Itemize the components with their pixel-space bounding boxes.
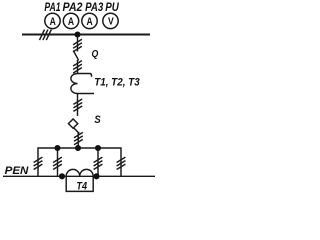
- svg-text:Q: Q: [92, 49, 99, 60]
- svg-text:PU: PU: [105, 1, 119, 14]
- svg-text:A: A: [68, 16, 74, 28]
- svg-text:PA2: PA2: [63, 1, 83, 14]
- svg-text:PA1: PA1: [44, 1, 60, 14]
- svg-text:A: A: [50, 16, 56, 28]
- svg-text:A: A: [87, 16, 93, 28]
- svg-text:V: V: [108, 16, 114, 27]
- svg-text:S: S: [94, 114, 101, 126]
- svg-text:T1, T2, T3: T1, T2, T3: [94, 76, 140, 88]
- svg-text:PA3: PA3: [85, 1, 104, 14]
- svg-text:PEN: PEN: [5, 165, 30, 177]
